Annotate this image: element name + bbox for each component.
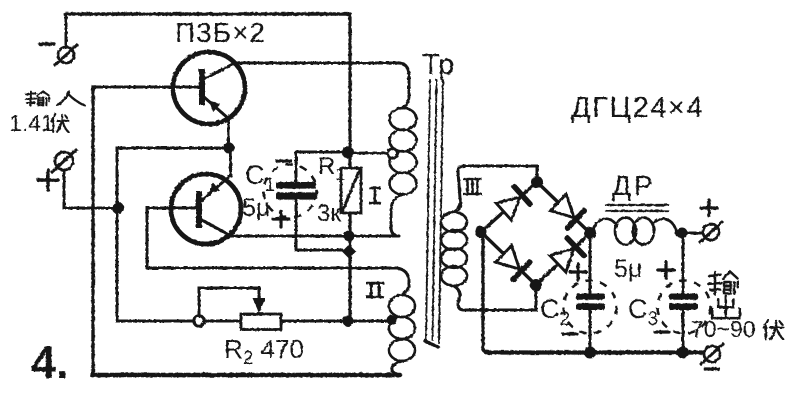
svg-text:ДГЦ24×4: ДГЦ24×4: [571, 92, 704, 124]
wire emitter bus vertical: [117, 148, 228, 321]
wire T1 collector to winding I top: [235, 63, 409, 108]
label C3 plus: [658, 262, 674, 278]
node bridge top: [531, 176, 543, 188]
label C2 minus: [563, 332, 577, 335]
transformer core: [426, 80, 430, 340]
terminal minus input: [65, 14, 68, 47]
svg-text:3к: 3к: [317, 200, 341, 227]
capacitor C3 (dashed circle): [658, 281, 711, 334]
label I: [369, 188, 381, 203]
label C1 plus: [273, 211, 289, 227]
wire T1 base to left rail: [93, 86, 199, 89]
label C1 minus: [277, 159, 291, 162]
wire plus input to junction: [64, 170, 117, 208]
wiper arrow: [253, 298, 266, 313]
wire R1 bottom vertical: [348, 213, 351, 321]
choke core: [606, 204, 668, 206]
label 输出: [708, 272, 738, 294]
winding I tap circle: [388, 149, 398, 159]
wire winding II top curve: [397, 268, 409, 295]
svg-text:ДР: ДР: [612, 170, 656, 201]
wire feedback bus down to R2 line: [117, 208, 241, 321]
wire T2 emitter up to junction: [229, 148, 232, 176]
wire bottom rail: [92, 373, 400, 378]
resistor R1: [341, 168, 361, 213]
node R2 wiper tap (open): [194, 316, 204, 326]
wire winding I bottom: [391, 194, 403, 236]
node C1 bottom diamond junction: [342, 245, 356, 259]
wire C3 top lead: [682, 238, 685, 293]
capacitor C2 (dashed circle): [564, 281, 617, 334]
label plus output: [701, 200, 717, 216]
choke L winding: [592, 219, 615, 235]
svg-text:1.41: 1.41: [9, 110, 54, 136]
svg-text:5μ: 5μ: [242, 194, 270, 222]
potentiometer R2: [241, 314, 281, 330]
transistor V1 (П3Б): [173, 52, 245, 124]
label C3 minus: [655, 330, 669, 333]
label minus input: [40, 42, 54, 45]
wire T2 collector line: [231, 235, 398, 238]
wire C2 bottom lead: [589, 310, 592, 351]
node emitters junction: [224, 143, 235, 154]
node choke output: [677, 228, 688, 239]
label III: [463, 179, 482, 194]
diode D1: [496, 197, 520, 220]
node C3 bottom: [677, 347, 689, 359]
wire T1 emitter down: [227, 119, 230, 148]
wire winding II bottom curve: [392, 361, 402, 375]
svg-text:70~90: 70~90: [691, 316, 756, 342]
svg-text:4.: 4.: [31, 337, 69, 388]
node plus input junction: [112, 202, 124, 214]
node bridge bottom: [530, 279, 542, 291]
wire winding III top: [454, 166, 537, 212]
label 输入: [25, 91, 49, 105]
wire left rail down: [91, 87, 94, 374]
wire C2 top lead: [589, 238, 592, 293]
svg-text:Тр: Тр: [422, 49, 454, 81]
transformer winding I: [390, 108, 417, 130]
node T2 collector / R1 bottom: [344, 231, 355, 242]
diode D3: [496, 246, 520, 270]
bridge arm wires: [481, 182, 590, 285]
label plus input: [38, 170, 58, 190]
diode D2: [550, 194, 574, 218]
wire choke to plus terminal: [676, 232, 703, 235]
terminal plus input: [55, 152, 73, 170]
terminal plus output: [703, 224, 719, 240]
wire C1 bottom lead: [296, 199, 342, 250]
wire C3 bottom lead: [682, 310, 685, 351]
wire base drive from winding II top: [147, 267, 397, 270]
transformer winding II: [389, 295, 415, 317]
label C2 plus: [570, 264, 586, 280]
wire центральный vertical from top rail: [348, 14, 351, 168]
terminal minus output: [704, 346, 720, 362]
transistor V2 (П3Б): [171, 174, 241, 244]
diode D4: [550, 249, 574, 273]
node bridge right: [584, 227, 596, 239]
transformer winding III: [441, 212, 467, 232]
label II: [366, 283, 384, 297]
wire bridge left to bottom rail: [483, 236, 488, 352]
wire R2 to winding II tap: [281, 320, 389, 323]
node winding II tap: [387, 315, 397, 325]
wire R2 wiper loop: [199, 288, 259, 316]
node R1 top junction: [342, 147, 354, 159]
capacitor C1 (dashed circle): [264, 165, 317, 218]
wire top rail: [65, 12, 350, 16]
wire bottom output rail: [486, 350, 704, 354]
wire node to C1 top: [296, 152, 342, 182]
svg-text:П3Б×2: П3Б×2: [175, 17, 266, 48]
wire T2 base: [147, 208, 196, 268]
wire winding III bottom: [454, 286, 536, 310]
svg-text:R2 470: R2 470: [224, 334, 304, 369]
node C2 bottom: [584, 347, 596, 359]
wire node to winding I tap: [354, 152, 388, 155]
node bridge left: [475, 226, 487, 238]
label minus output: [705, 367, 719, 370]
node R2 line junction: [343, 316, 354, 327]
svg-text:5μ: 5μ: [614, 255, 642, 283]
